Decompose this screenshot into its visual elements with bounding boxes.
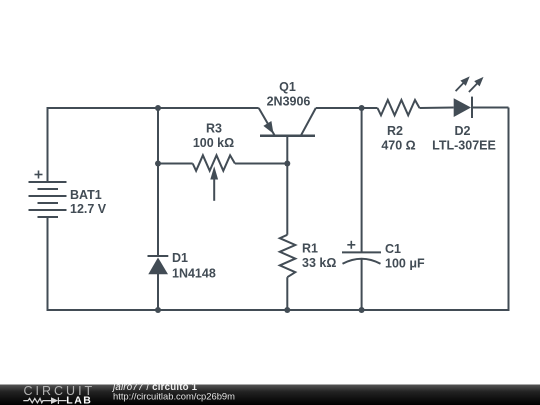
svg-text:Q1: Q1 (279, 80, 296, 94)
svg-text:C1: C1 (385, 242, 401, 256)
svg-text:http://circuitlab.com/cp26b9m: http://circuitlab.com/cp26b9m (113, 391, 235, 402)
svg-text:LAB: LAB (66, 394, 92, 405)
svg-text:33 kΩ: 33 kΩ (302, 256, 336, 270)
svg-text:R1: R1 (302, 242, 318, 256)
svg-text:100 μF: 100 μF (385, 257, 425, 271)
svg-text:D1: D1 (172, 251, 188, 265)
svg-text:R2: R2 (387, 124, 403, 138)
svg-text:2N3906: 2N3906 (267, 95, 311, 109)
svg-text:LTL-307EE: LTL-307EE (432, 139, 496, 153)
svg-text:BAT1: BAT1 (70, 188, 102, 202)
svg-text:12.7 V: 12.7 V (70, 202, 107, 216)
svg-text:100 kΩ: 100 kΩ (193, 136, 234, 150)
svg-text:1N4148: 1N4148 (172, 266, 216, 280)
svg-text:D2: D2 (455, 124, 471, 138)
svg-text:R3: R3 (206, 121, 222, 135)
svg-text:470 Ω: 470 Ω (381, 139, 415, 153)
